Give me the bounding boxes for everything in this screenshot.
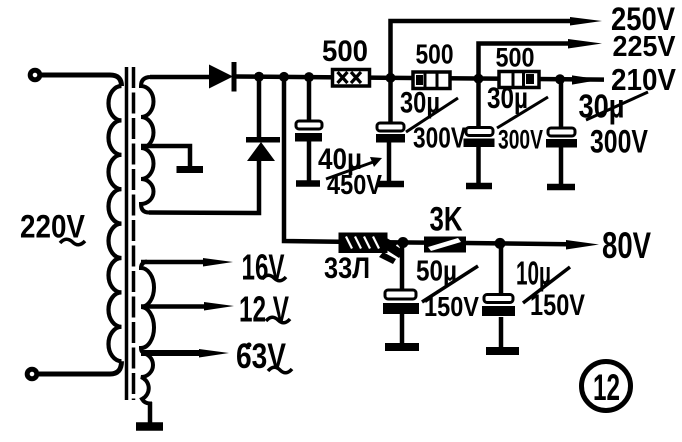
svg-text:450V: 450V [327, 169, 382, 200]
ground center tap [177, 166, 204, 173]
ground C2 [377, 181, 404, 188]
tilde 6.3V [268, 367, 292, 373]
svg-text:500: 500 [416, 39, 454, 70]
wire rail 3K to arrow [466, 243, 568, 244]
node H [495, 238, 506, 249]
resistor R2 500 [413, 72, 450, 89]
svg-text:500: 500 [322, 35, 368, 68]
node G [398, 237, 409, 248]
transformer secondary LV winding [141, 262, 154, 423]
svg-text:3K: 3K [430, 201, 463, 239]
svg-text:300V: 300V [590, 124, 649, 160]
svg-text:225V: 225V [613, 31, 676, 63]
wire LV tap 6.3V [141, 350, 201, 356]
arrow 250V [570, 17, 602, 26]
terminal input top [30, 70, 40, 80]
slash C2 [406, 98, 458, 132]
svg-text:12: 12 [593, 367, 620, 408]
arrow 12V [204, 302, 234, 311]
ground C6 [486, 347, 519, 355]
capacitor C6 10u stem [499, 243, 504, 295]
slash C3 [497, 97, 548, 128]
transformer core [125, 67, 129, 400]
wire rail after diode [236, 77, 604, 80]
capacitor C4 30u plates [546, 128, 577, 148]
diode D2 shunt [246, 137, 280, 161]
capacitor C1 bottom stem [307, 141, 312, 181]
wire top primary lead [41, 75, 122, 86]
ground C3 [466, 183, 492, 190]
arrow 16V [203, 258, 233, 267]
capacitor C2 bottom stem [387, 142, 392, 182]
svg-text:150V: 150V [530, 289, 585, 322]
wire 250V riser [391, 21, 573, 78]
label 6.3V decimal dot [247, 343, 252, 348]
ground C5 [385, 343, 419, 351]
svg-text:150V: 150V [424, 291, 479, 322]
diode D1 [209, 62, 237, 92]
capacitor C4 bottom stem [559, 147, 564, 185]
wire bottom primary lead [39, 361, 122, 374]
arrow 225V [568, 39, 602, 49]
resistor R4 33K [339, 233, 405, 265]
svg-text:300V: 300V [413, 123, 467, 155]
node C [304, 72, 314, 82]
transformer secondary HV winding [141, 77, 154, 213]
capacitor C5 50u plates [383, 290, 419, 314]
capacitor C1 40u top stem [307, 77, 312, 122]
arrow 210V [572, 75, 601, 84]
capacitor C6 bottom stem [499, 317, 504, 348]
ground C4 [547, 184, 575, 191]
slash C4 [586, 92, 648, 120]
wire HV center tap [141, 146, 190, 166]
node A [254, 72, 264, 82]
capacitor C4 30u stem [559, 79, 564, 128]
slash C1 arrow [326, 157, 382, 179]
arrow 80V [566, 240, 599, 250]
resistor R5 3K [424, 237, 466, 253]
wire LV tap 12V [141, 304, 206, 309]
wire rail 33K to 3K [383, 240, 424, 245]
wire dropper feed [284, 77, 339, 242]
capacitor C5 bottom stem [400, 314, 405, 344]
wire HV top to diode [150, 75, 209, 80]
svg-text:300V: 300V [498, 125, 543, 155]
node F [555, 74, 565, 84]
slash C6 [523, 267, 570, 303]
capacitor C2 30u plates [376, 123, 405, 143]
tilde 12V [266, 317, 290, 323]
node B [279, 72, 289, 82]
ground transformer bottom [136, 422, 163, 431]
arrow 6.3V [199, 349, 229, 358]
wire 225V riser [479, 44, 571, 79]
capacitor C6 10u plates [482, 295, 515, 317]
capacitor C3 30u stem [476, 79, 481, 127]
capacitor C3 bottom stem [476, 147, 481, 184]
svg-text:220V: 220V [20, 209, 86, 245]
svg-text:30µ: 30µ [487, 82, 528, 115]
capacitor C5 50u stem [400, 243, 405, 292]
figure number circle 12 [582, 362, 631, 411]
slash C5 [422, 266, 478, 302]
terminal input bottom [27, 369, 37, 379]
svg-text:80V: 80V [602, 225, 651, 266]
tilde 220V [60, 239, 85, 245]
wire LV bottom to ground [148, 402, 153, 423]
wire LV tap 16V [141, 260, 205, 265]
wire D2 anode to winding bottom [149, 159, 259, 213]
capacitor C1 40u plates [295, 121, 322, 142]
node E [474, 74, 484, 84]
resistor R3 500 [499, 72, 539, 88]
capacitor C3 30u plates [464, 128, 495, 148]
svg-text:33Л: 33Л [324, 252, 370, 285]
node D [386, 73, 396, 83]
tilde 16V [262, 275, 286, 281]
svg-text:500: 500 [496, 43, 535, 73]
capacitor C2 30u stem [388, 78, 393, 123]
ground C1 [296, 180, 320, 187]
transformer primary winding [108, 86, 121, 361]
wire zener stem [257, 77, 262, 138]
resistor R1 500 [333, 70, 370, 87]
